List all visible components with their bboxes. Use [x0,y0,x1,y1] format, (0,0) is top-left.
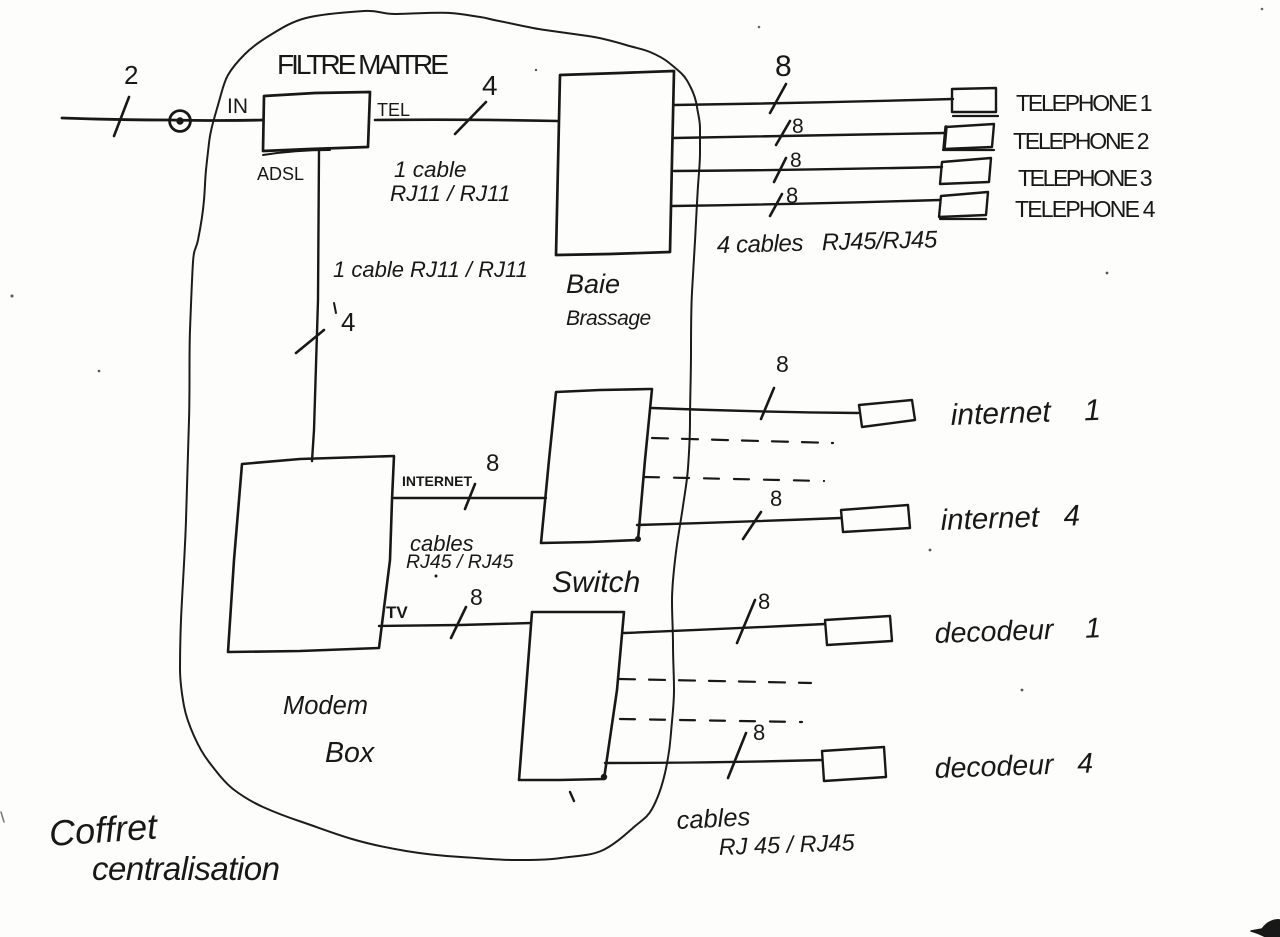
wire: telephone line 2 [674,133,944,138]
slash internet4 [743,512,761,539]
wire: incoming line [62,118,263,121]
wire: dashed line d [620,719,802,722]
wire: tv line modem to switch2 [379,623,531,626]
svg-text:8: 8 [775,50,792,83]
svg-text:8: 8 [770,486,782,511]
box: internet 1 [859,400,915,427]
wire: telephone line 4 [672,200,940,206]
svg-text:IN: IN [227,95,248,118]
svg-text:RJ11 / RJ11: RJ11 / RJ11 [390,181,510,206]
svg-text:8: 8 [470,584,483,610]
svg-text:TEL: TEL [377,100,410,120]
ink dot switch1 corner [635,536,641,542]
dot [435,575,438,578]
svg-text:FILTRE MAITRE: FILTRE MAITRE [277,49,448,80]
svg-text:centralisation: centralisation [92,850,279,887]
wire: tel line to baie [375,120,558,121]
wire: telephone line 3 [674,167,942,171]
svg-text:internet 1: internet 1 [950,394,1101,432]
box: decodeur 4 [822,747,886,781]
svg-text:Switch: Switch [552,566,640,599]
wire: decodeur 4 line [605,760,822,763]
slash tv [451,607,466,638]
box: filtre maitre doubled bottom stroke [263,150,330,155]
svg-text:cables: cables [676,803,751,835]
slash internet [465,484,475,509]
svg-text:2: 2 [124,60,138,90]
box: filtre maitre [263,92,370,151]
slash internet1 [761,388,774,419]
mark bottom right [1251,920,1280,937]
slash line1 [770,84,786,113]
connector socket [170,111,191,132]
box: decodeur 1 [825,616,892,645]
dust specks [535,69,537,71]
wire: telephone line 1 [674,99,953,105]
svg-text:8: 8 [486,450,499,477]
slash line3 [774,158,786,182]
slash marker 4 on adsl [296,330,324,353]
svg-text:ADSL: ADSL [257,164,304,184]
svg-text:8: 8 [776,351,789,377]
box: modem [228,456,394,652]
box: switch 1 [541,389,652,543]
svg-text:TV: TV [386,603,408,622]
slash marker 2 wires [114,97,129,136]
svg-text:Brassage: Brassage [566,307,651,330]
ink dot switch2 corner [601,774,607,780]
wire: dashed line b [644,477,824,481]
tick [334,303,336,313]
slash decodeur1 [737,600,755,643]
box: telephone 4 [939,192,988,217]
svg-text:8: 8 [753,720,765,745]
svg-text:4: 4 [482,70,498,101]
svg-text:decodeur 4: decodeur 4 [934,747,1093,785]
box: switch 2 [519,612,624,780]
svg-text:8: 8 [758,589,770,614]
svg-text:1 cable: 1 cable [394,157,467,182]
svg-text:Box: Box [325,737,376,769]
svg-text:Coffret: Coffret [48,805,161,854]
slash line4 [770,194,782,216]
svg-text:8: 8 [786,183,798,208]
slash line2 [776,121,790,145]
wire: internet 1 line [652,408,858,413]
svg-text:8: 8 [792,115,804,138]
svg-text:RJ45 / RJ45: RJ45 / RJ45 [406,551,513,573]
wire: internet 4 line [637,518,841,525]
tick below switch2 [570,792,574,801]
svg-text:INTERNET: INTERNET [402,473,472,489]
svg-text:RJ 45 / RJ45: RJ 45 / RJ45 [718,829,856,860]
svg-text:4: 4 [341,307,355,337]
svg-text:decodeur 1: decodeur 1 [934,612,1101,650]
box: telephone 2 [944,124,994,149]
svg-text:TELEPHONE 3: TELEPHONE 3 [1018,165,1152,191]
svg-text:4 cables RJ45/RJ45: 4 cables RJ45/RJ45 [716,226,938,259]
box: baie brassage [556,71,674,255]
wire: internet line modem to switch1 [394,497,546,499]
svg-text:TELEPHONE 2: TELEPHONE 2 [1013,128,1149,154]
slash decodeur4 [728,733,746,778]
box: telephone 1 [952,88,996,112]
svg-text:Baie: Baie [566,269,620,299]
svg-text:TELEPHONE 4: TELEPHONE 4 [1015,196,1156,222]
coffret centralisation enclosure blob [180,11,700,860]
svg-text:TELEPHONE 1: TELEPHONE 1 [1016,90,1152,116]
slash marker 4 [455,102,486,134]
svg-text:8: 8 [790,149,802,172]
wire: dashed line c [619,679,811,683]
wire: decodeur 1 line [624,624,825,633]
svg-text:internet 4: internet 4 [940,499,1080,537]
box: internet 4 [841,505,910,532]
box: telephone 3 [940,158,991,184]
svg-text:1 cable RJ11 / RJ11: 1 cable RJ11 / RJ11 [333,257,528,282]
wire: adsl vertical line [312,151,319,461]
svg-text:Modem: Modem [283,692,368,720]
wire: dashed line a [652,438,833,443]
